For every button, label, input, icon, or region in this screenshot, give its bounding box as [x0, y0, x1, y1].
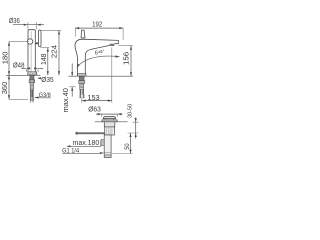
base escutcheon [28, 72, 37, 75]
spout / body outline [75, 39, 118, 76]
tailpipe [104, 135, 111, 158]
deck line right view [69, 75, 134, 77]
svg-text:±5°: ±5° [98, 49, 105, 54]
svg-text:153: 153 [87, 93, 99, 102]
svg-text:180: 180 [0, 52, 9, 65]
deck line left view [6, 74, 41, 76]
extension lines 192 [75, 28, 123, 40]
dim line Ø36 [13, 24, 44, 26]
dim 224 [58, 30, 60, 75]
svg-text:Ø35: Ø35 [41, 75, 53, 84]
pivot nub [101, 140, 104, 146]
plug dome [103, 117, 115, 119]
threaded rod [30, 83, 34, 90]
flange [102, 120, 117, 122]
nut (right) [79, 81, 85, 84]
drain body [104, 122, 115, 127]
pop-up rod [76, 132, 105, 134]
svg-text:30-50: 30-50 [128, 104, 134, 118]
dim 148 [47, 48, 49, 76]
dim 30-50 [135, 118, 137, 139]
hose connectors (right) [80, 95, 82, 99]
shank (right) [79, 76, 84, 80]
dim 180 [8, 42, 10, 76]
dim line 192 [75, 27, 123, 29]
dim max.40 (deck thickness, right view) [71, 64, 73, 97]
dim line Ø63 [96, 113, 123, 115]
svg-text:50: 50 [124, 143, 131, 150]
spout outlet circle (end-on) [27, 39, 32, 44]
svg-text:156: 156 [121, 52, 130, 65]
svg-text:148: 148 [39, 54, 48, 65]
dim 360 [8, 75, 10, 99]
svg-text:Ø36: Ø36 [9, 16, 20, 25]
svg-text:max.40: max.40 [63, 88, 70, 113]
mounting nut [29, 80, 35, 83]
lever handle (front view) [39, 30, 42, 47]
dim 50 [130, 133, 132, 154]
dim 153 [82, 48, 112, 103]
shank [30, 75, 34, 80]
svg-text:224: 224 [50, 45, 59, 58]
swivel arc [77, 56, 119, 67]
threaded rod (right) [80, 83, 84, 89]
basin line [95, 121, 128, 123]
hose connectors [30, 97, 32, 101]
svg-text:192: 192 [92, 19, 102, 28]
spout underside [85, 45, 110, 76]
dim 156 [119, 45, 134, 47]
lever handle (side view) [81, 30, 85, 38]
lever hub [35, 42, 38, 44]
svg-text:360: 360 [0, 82, 9, 95]
extension lines Ø36 [28, 22, 37, 29]
faucet body (front view) [28, 30, 35, 72]
hoses (right) [80, 90, 84, 95]
flexible hoses [31, 90, 34, 97]
svg-text:Ø63: Ø63 [88, 105, 101, 114]
aerator [110, 44, 115, 46]
base escutcheon (side) [77, 74, 86, 77]
